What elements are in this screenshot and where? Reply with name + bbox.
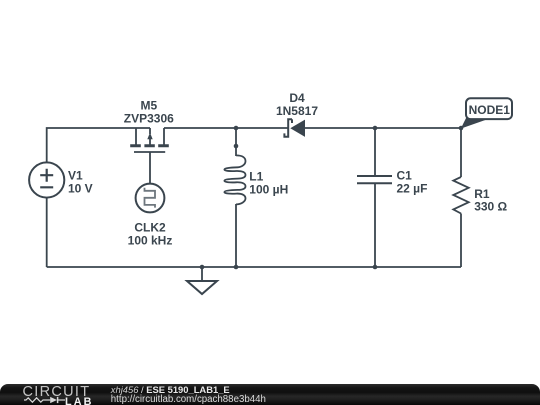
wire L1 bottom branch (235, 204, 237, 267)
junction dot ground (200, 265, 205, 270)
logo LAB text (65, 397, 94, 405)
wire L1 top branch (235, 128, 237, 156)
svg-text:D4: D4 (289, 91, 305, 105)
label R1 (474, 187, 507, 214)
capacitor C1 (357, 176, 392, 183)
svg-text:V1: V1 (68, 169, 83, 183)
junction dot L1 terminal (234, 144, 239, 149)
wire top from M5 drain to diode cathode (164, 127, 288, 129)
junction dot L1 top (234, 126, 239, 131)
footer url line (111, 395, 266, 405)
label C1 (397, 168, 428, 195)
svg-text:22 µF: 22 µF (397, 181, 428, 195)
svg-text:1N5817: 1N5817 (276, 104, 318, 118)
label V1 value (68, 169, 93, 196)
node NODE1 flag (461, 118, 486, 129)
footer title line (111, 385, 230, 394)
wire bottom rail (47, 266, 461, 268)
logo CIRCUIT text (23, 385, 91, 400)
D4 triangle (290, 120, 305, 137)
svg-text:NODE1: NODE1 (469, 103, 511, 117)
resistor R1 (453, 177, 468, 214)
wire left vertical from V1 bottom (46, 198, 48, 267)
junction dot C1 bottom (373, 265, 378, 270)
footer watermark bar (0, 384, 540, 405)
svg-text:ZVP3306: ZVP3306 (124, 112, 174, 126)
wire C1 bottom branch (374, 183, 376, 267)
junction dot L1 bottom (234, 265, 239, 270)
voltage source V1 (29, 162, 64, 197)
svg-text:M5: M5 (140, 99, 157, 113)
wire top-left from V1 to M5 source side (47, 128, 150, 162)
inductor L1 (224, 155, 245, 204)
svg-text:330 Ω: 330 Ω (474, 199, 507, 213)
label CLK2 (128, 221, 173, 248)
label L1 (249, 170, 288, 197)
M5 body arrow (147, 133, 152, 140)
junction dot C1 top (373, 126, 378, 131)
logo mini schematic (20, 394, 70, 405)
label D4 (276, 91, 318, 118)
diode D4 (schottky) (284, 119, 292, 136)
wire C1 top branch (374, 128, 376, 176)
ground (187, 281, 217, 294)
wire right vertical to R1 (460, 128, 462, 177)
svg-text:10 V: 10 V (68, 182, 93, 196)
svg-text:L1: L1 (249, 170, 263, 184)
svg-text:C1: C1 (397, 168, 413, 182)
svg-text:100 kHz: 100 kHz (128, 233, 173, 247)
CLK2 waveform glyph (145, 188, 156, 208)
label M5 (124, 99, 174, 126)
wire ground stub (201, 267, 203, 281)
svg-text:100 µH: 100 µH (249, 183, 288, 197)
transistor M5 (PMOS) (130, 128, 169, 184)
clock source CLK2 (136, 184, 165, 213)
wire R1 bottom to bottom rail (460, 214, 462, 268)
wire top from diode anode to NODE1 corner (305, 127, 461, 129)
node NODE1 box (466, 98, 512, 119)
junction dot NODE1 corner (459, 126, 464, 131)
